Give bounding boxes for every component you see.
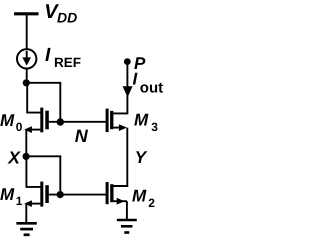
M3 channel bar: [110, 111, 113, 129]
svg-text:2: 2: [148, 196, 155, 210]
current source arrow: [26, 51, 28, 60]
ground (right): [117, 220, 137, 233]
label X: [7, 147, 21, 167]
wire VDD stub down to current source: [26, 14, 28, 49]
M0 source lead with arrow: [26, 129, 40, 131]
node X dot: [23, 153, 30, 160]
svg-text:M: M: [0, 185, 15, 204]
svg-text:M: M: [0, 111, 15, 130]
label M1: [0, 185, 23, 208]
transistor M3: [106, 109, 127, 133]
svg-text:3: 3: [151, 120, 158, 134]
junction dot at IREF node: [23, 79, 30, 86]
svg-text:M: M: [134, 111, 149, 130]
VDD supply bar: [14, 12, 39, 15]
M2 source lead with arrow: [113, 200, 127, 202]
label Iout: [133, 70, 164, 97]
M1 source lead with arrow: [26, 203, 40, 205]
label P: [134, 54, 146, 73]
Iout arrowhead: [123, 86, 133, 97]
current source IREF circle: [17, 49, 36, 68]
wire down to M1/M2 gate line: [59, 156, 61, 194]
label VDD: [44, 1, 77, 26]
svg-text:REF: REF: [54, 55, 81, 70]
node N wire (M0 gate to M3 gate): [49, 121, 106, 123]
wire Y: M3 source to M2 drain: [113, 128, 127, 186]
wire IREF node down to M0 drain: [27, 83, 40, 113]
ground (left): [16, 223, 36, 235]
label M0: [0, 111, 23, 134]
svg-text:0: 0: [16, 120, 23, 134]
svg-text:out: out: [140, 79, 163, 96]
label Y: [135, 148, 148, 167]
junction dot on node N: [57, 118, 64, 125]
M1 gate bar: [45, 185, 49, 203]
svg-text:DD: DD: [57, 10, 77, 26]
transistor M1: [24, 182, 49, 207]
svg-text:1: 1: [16, 194, 23, 208]
M1 channel bar: [40, 182, 43, 207]
transistor M2: [106, 182, 127, 205]
M2 gate bar: [106, 182, 109, 204]
label M2: [132, 186, 155, 210]
label M3: [134, 111, 158, 135]
M3 source lead with arrow: [113, 127, 125, 129]
node P dot: [124, 58, 131, 65]
M1/M2 gate wire: [49, 194, 106, 196]
wire M2 source down to ground: [126, 201, 128, 220]
M0 channel bar: [40, 108, 43, 133]
wire P down to M3 drain: [113, 62, 127, 114]
label IREF: [45, 45, 81, 70]
wire M0 source down to X: [25, 130, 27, 157]
wire IREF node right: [26, 82, 61, 84]
wire X right: [26, 155, 61, 157]
svg-text:I: I: [45, 45, 51, 66]
M2 channel bar: [110, 184, 113, 202]
junction dot on gate wire: [57, 191, 64, 198]
wire M1 source down to ground: [25, 204, 27, 223]
label N: [75, 126, 89, 146]
M3 gate bar: [106, 109, 109, 133]
transistor M0: [24, 108, 49, 133]
wire X down to M1 drain: [26, 156, 40, 187]
wire current source to node dot: [26, 69, 28, 85]
wire down to gate node N: [59, 83, 61, 122]
svg-text:Y: Y: [135, 148, 148, 167]
svg-text:M: M: [132, 186, 147, 205]
svg-text:X: X: [7, 147, 21, 167]
svg-text:N: N: [75, 126, 89, 146]
M0 gate bar: [45, 111, 49, 130]
